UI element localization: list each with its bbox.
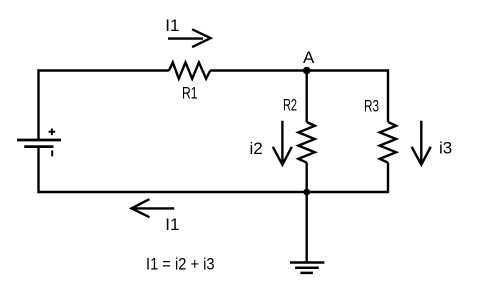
- wire top from battery to R1: [39, 69, 170, 71]
- svg-text:I1: I1: [165, 16, 179, 35]
- resistor R2: [298, 122, 314, 163]
- battery minus label: [51, 150, 53, 156]
- svg-text:i3: i3: [439, 138, 452, 157]
- current arrow i3: [412, 121, 431, 165]
- node A junction dot: [303, 67, 311, 75]
- wire R2 branch upper: [306, 71, 308, 123]
- wire left vertical battery bottom: [37, 147, 39, 194]
- battery plus label: [49, 129, 56, 136]
- wire R3 branch upper: [387, 69, 389, 122]
- ground: [290, 263, 325, 273]
- current arrow I1 bottom: [132, 199, 175, 217]
- current arrow i2: [273, 121, 292, 165]
- resistor R3: [380, 122, 396, 163]
- wire top from R1 to node A and corner: [210, 69, 388, 71]
- resistor R1: [169, 62, 210, 78]
- wire R2 branch lower: [306, 163, 308, 192]
- wire left vertical battery top: [37, 69, 39, 140]
- battery: [17, 140, 61, 147]
- svg-text:R3: R3: [364, 96, 379, 115]
- current arrow I1 top: [168, 29, 211, 47]
- svg-text:R1: R1: [182, 84, 198, 103]
- svg-text:R2: R2: [283, 95, 297, 114]
- svg-text:I1 = i2 + i3: I1 = i2 + i3: [146, 254, 215, 273]
- wire ground stem: [306, 192, 308, 263]
- wire bottom: [39, 191, 389, 193]
- junction dot bottom node: [303, 189, 310, 196]
- wire R3 branch lower: [387, 163, 389, 194]
- svg-text:A: A: [303, 48, 315, 67]
- svg-text:I1: I1: [165, 215, 179, 234]
- svg-text:i2: i2: [250, 139, 263, 158]
